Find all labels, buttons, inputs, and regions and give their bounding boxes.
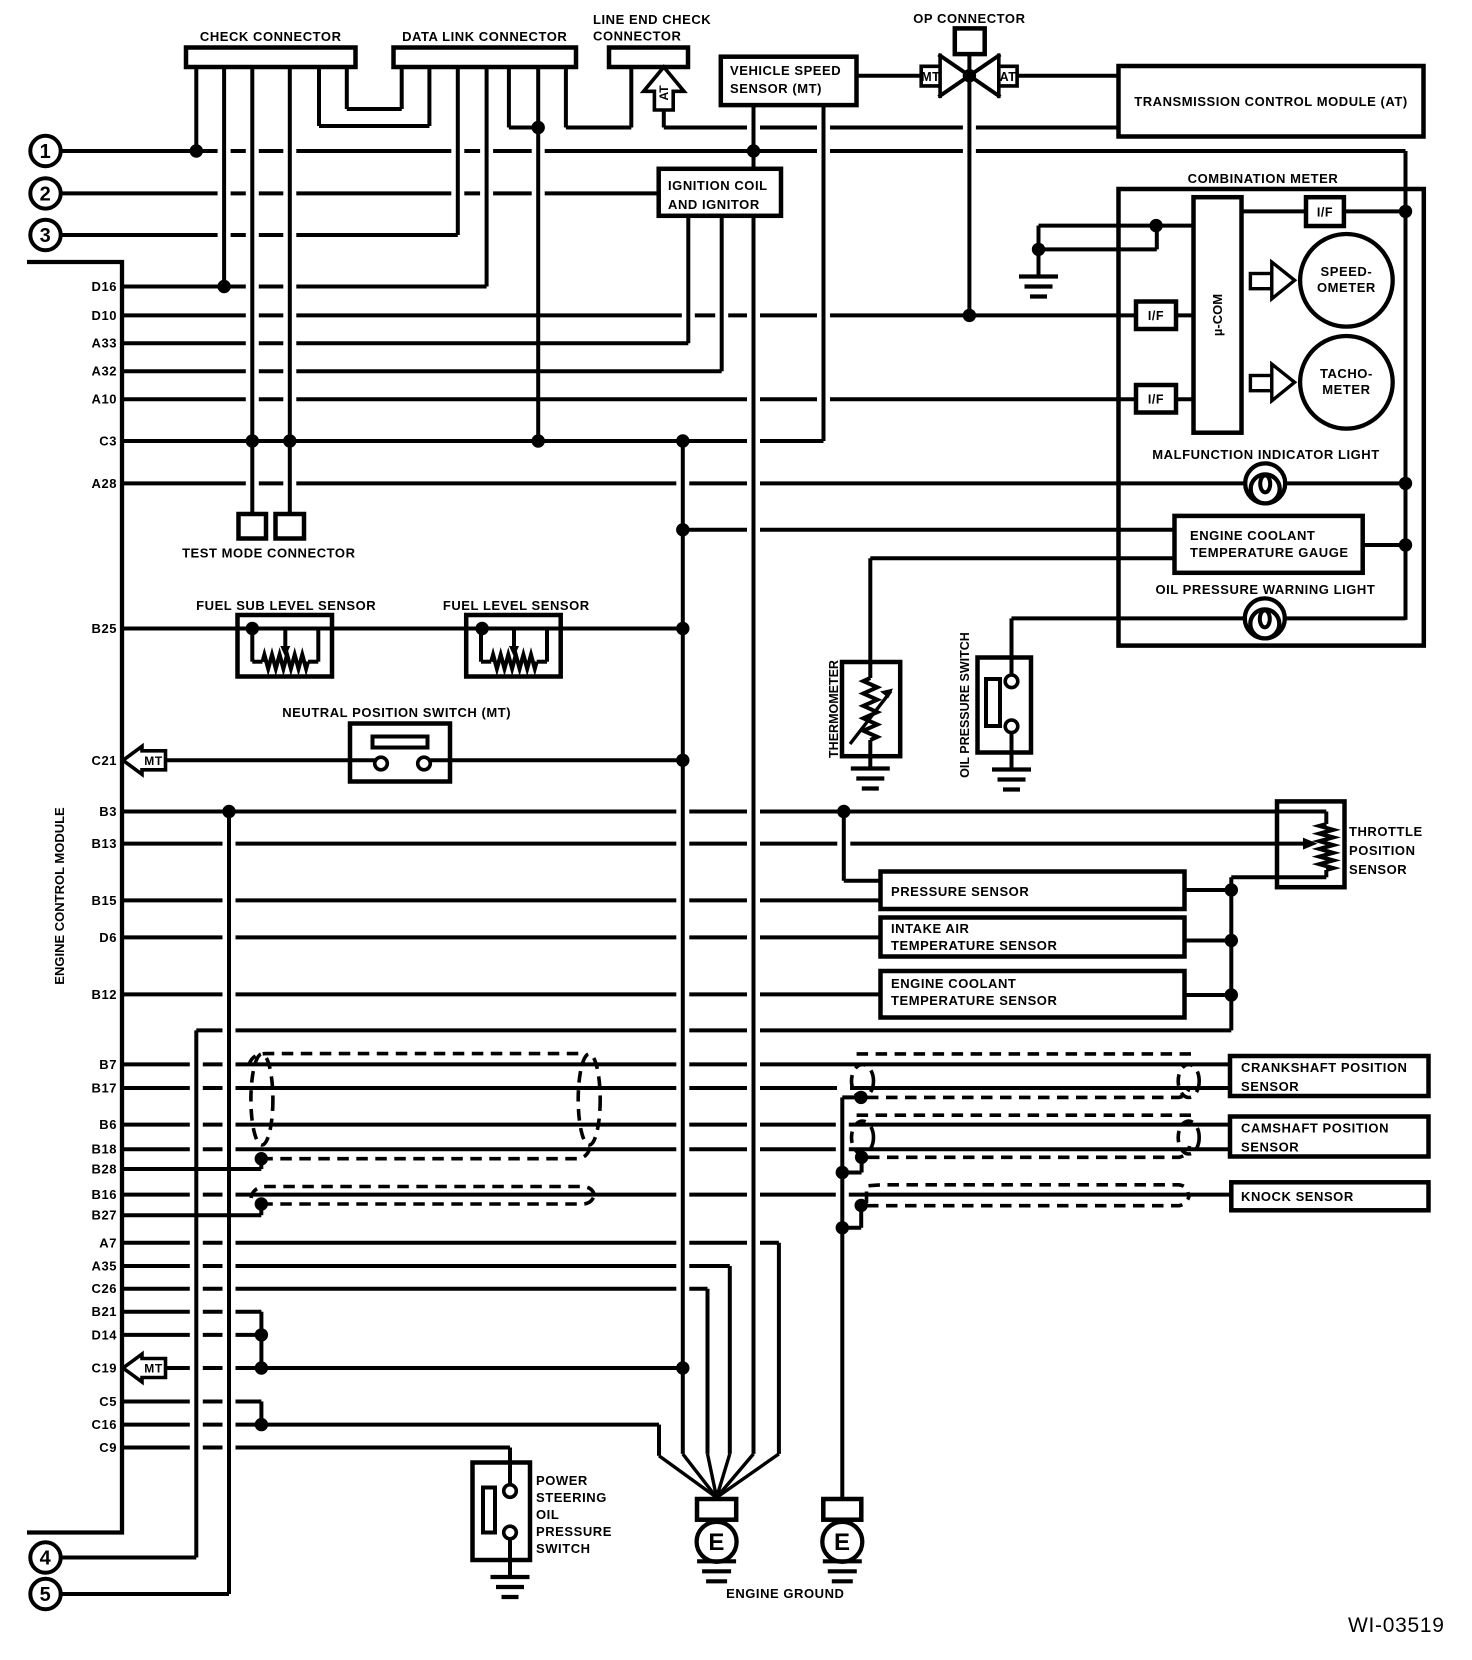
AT arrow (line end check) bbox=[644, 67, 684, 110]
svg-text:SWITCH: SWITCH bbox=[536, 1541, 591, 1556]
svg-text:ENGINE COOLANT: ENGINE COOLANT bbox=[891, 976, 1016, 991]
crank cable shield right bbox=[852, 1054, 1200, 1098]
line end check connector bbox=[593, 12, 711, 67]
MT arrow C19 bbox=[123, 1354, 166, 1382]
svg-text:WI-03519: WI-03519 bbox=[1348, 1614, 1445, 1637]
wire funnel C16 bbox=[659, 1456, 717, 1498]
engine control module label bbox=[52, 807, 67, 985]
wire B21 bbox=[122, 1312, 261, 1368]
node 4 circle bbox=[30, 1542, 60, 1572]
svg-text:B13: B13 bbox=[92, 836, 118, 851]
wire thermometer to gauge bbox=[870, 556, 1174, 560]
OP connector box bbox=[913, 11, 1025, 54]
svg-text:B28: B28 bbox=[92, 1162, 118, 1177]
wire coil drop A32 bbox=[720, 216, 724, 371]
svg-text:C21: C21 bbox=[92, 753, 118, 768]
wire check drop 2 bbox=[222, 67, 226, 287]
tachometer bbox=[1300, 336, 1393, 429]
svg-text:A28: A28 bbox=[92, 476, 118, 491]
wire check-datalink U inner bbox=[347, 67, 402, 109]
svg-text:D6: D6 bbox=[99, 930, 117, 945]
oil pressure switch label bbox=[958, 632, 972, 778]
svg-text:TEMPERATURE SENSOR: TEMPERATURE SENSOR bbox=[891, 938, 1057, 953]
svg-text:TACHO-: TACHO- bbox=[1320, 366, 1373, 381]
wire check drop 3 to test mode bbox=[250, 67, 254, 514]
wire B27 bbox=[122, 1204, 261, 1215]
crankshaft position sensor box bbox=[1230, 1056, 1429, 1096]
svg-text:5: 5 bbox=[40, 1584, 52, 1606]
svg-text:C3: C3 bbox=[99, 434, 117, 449]
wire C16 bbox=[122, 1425, 659, 1456]
malfunction indicator light bbox=[1245, 463, 1285, 503]
wire net2 bbox=[61, 191, 659, 195]
wire datalink drop to C3 bbox=[536, 67, 540, 441]
svg-text:NEUTRAL POSITION SWITCH (MT): NEUTRAL POSITION SWITCH (MT) bbox=[282, 705, 511, 720]
wire B12 bbox=[122, 992, 881, 996]
wire B7 bbox=[122, 1062, 1230, 1066]
wire net1 vertical feed bbox=[1404, 151, 1408, 620]
svg-text:B15: B15 bbox=[92, 893, 118, 908]
svg-text:OMETER: OMETER bbox=[1317, 280, 1376, 295]
svg-text:D16: D16 bbox=[92, 279, 118, 294]
wire B3 bbox=[122, 810, 1326, 814]
svg-text:E: E bbox=[708, 1529, 725, 1556]
svg-text:AT: AT bbox=[657, 85, 671, 101]
ignition coil and ignitor box bbox=[659, 169, 781, 216]
wire A33 bbox=[122, 341, 688, 345]
u-com box bbox=[1194, 197, 1242, 433]
wire C19 bbox=[166, 1366, 683, 1370]
wire AT-arrow to TCM bbox=[664, 110, 1119, 128]
node 5 circle bbox=[30, 1579, 60, 1609]
svg-text:COMBINATION METER: COMBINATION METER bbox=[1188, 171, 1339, 186]
TPS resistor bbox=[1319, 812, 1333, 878]
IF box top bbox=[1306, 197, 1344, 226]
wire node4 bbox=[61, 1556, 197, 1560]
wire VSS right drop (C3) bbox=[822, 105, 826, 441]
tachometer arrow bbox=[1250, 364, 1294, 401]
svg-text:CRANKSHAFT POSITION: CRANKSHAFT POSITION bbox=[1241, 1060, 1407, 1075]
svg-text:CONNECTOR: CONNECTOR bbox=[593, 29, 682, 44]
svg-text:B27: B27 bbox=[92, 1208, 118, 1223]
svg-text:SENSOR: SENSOR bbox=[1349, 862, 1407, 877]
AT label bbox=[1000, 70, 1017, 84]
wire ucom to IF top bbox=[1242, 209, 1307, 213]
svg-text:I/F: I/F bbox=[1148, 309, 1164, 323]
wire datalink drop to node3 bbox=[456, 67, 460, 235]
svg-text:VEHICLE SPEED: VEHICLE SPEED bbox=[730, 63, 841, 78]
svg-text:A10: A10 bbox=[92, 392, 118, 407]
wire C26 bbox=[122, 1289, 708, 1454]
svg-text:CAMSHAFT POSITION: CAMSHAFT POSITION bbox=[1241, 1121, 1389, 1136]
thermometer label bbox=[827, 660, 841, 758]
wire TPS bottom bbox=[1231, 877, 1326, 1030]
svg-text:AT: AT bbox=[1000, 70, 1017, 84]
vehicle speed sensor box bbox=[721, 57, 857, 105]
svg-text:POWER: POWER bbox=[536, 1473, 588, 1488]
svg-text:SENSOR (MT): SENSOR (MT) bbox=[730, 81, 822, 96]
svg-text:A7: A7 bbox=[99, 1235, 117, 1250]
IF box A10 bbox=[1136, 385, 1176, 413]
malfunction indicator light label bbox=[1152, 447, 1379, 462]
svg-text:I/F: I/F bbox=[1148, 393, 1164, 407]
wire oil pressure switch to warning light bbox=[1012, 616, 1406, 620]
wire C3 bbox=[122, 439, 824, 443]
wire coil drop A33 bbox=[686, 216, 690, 343]
node 2 circle bbox=[30, 178, 60, 208]
speedometer arrow bbox=[1250, 262, 1294, 299]
svg-text:THROTTLE: THROTTLE bbox=[1349, 824, 1423, 839]
wire AT to TCM bbox=[1017, 74, 1118, 78]
wire net1 bbox=[61, 149, 1406, 153]
MT label bbox=[921, 70, 940, 84]
svg-text:STEERING: STEERING bbox=[536, 1490, 607, 1505]
wire OP connector stem bbox=[967, 54, 971, 315]
svg-text:B21: B21 bbox=[92, 1304, 118, 1319]
wire check drop 1 bbox=[194, 67, 198, 151]
wire B6 bbox=[122, 1123, 1230, 1127]
thermometer bbox=[842, 558, 900, 788]
wire check drop 4 to test mode bbox=[288, 67, 292, 514]
wire B3 to pressure sensor bbox=[844, 812, 881, 881]
svg-text:OIL PRESSURE WARNING LIGHT: OIL PRESSURE WARNING LIGHT bbox=[1155, 582, 1375, 597]
engine ground label bbox=[726, 1586, 844, 1601]
svg-text:I/F: I/F bbox=[1317, 206, 1333, 220]
cam cable shield right bbox=[852, 1115, 1200, 1157]
svg-text:SPEED-: SPEED- bbox=[1321, 264, 1373, 279]
wire datalink to line-end-check bbox=[566, 67, 631, 128]
svg-text:ENGINE CONTROL MODULE: ENGINE CONTROL MODULE bbox=[52, 807, 67, 985]
wire datalink jumper bbox=[509, 67, 538, 128]
wire C5 bbox=[122, 1402, 261, 1425]
svg-text:CHECK CONNECTOR: CHECK CONNECTOR bbox=[200, 29, 342, 44]
svg-text:METER: METER bbox=[1322, 382, 1370, 397]
svg-text:E: E bbox=[834, 1529, 851, 1556]
wire intake sensor out bbox=[1185, 939, 1232, 943]
power steering oil pressure switch bbox=[473, 1463, 531, 1598]
wire VSS left drop bbox=[752, 105, 756, 169]
svg-text:4: 4 bbox=[40, 1548, 52, 1570]
svg-text:ENGINE COOLANT: ENGINE COOLANT bbox=[1190, 528, 1315, 543]
svg-text:MT: MT bbox=[144, 754, 163, 768]
wire D10 bbox=[122, 313, 1194, 317]
wire net3 bbox=[61, 233, 458, 237]
svg-text:B7: B7 bbox=[99, 1057, 117, 1072]
wire bus 683 bbox=[681, 441, 685, 1454]
engine coolant temperature sensor box bbox=[881, 971, 1185, 1018]
knock sensor box bbox=[1231, 1182, 1428, 1210]
wire coil drop ground bbox=[752, 216, 756, 1454]
wire IF top to feed bbox=[1344, 209, 1406, 213]
svg-text:A35: A35 bbox=[92, 1259, 118, 1274]
svg-text:A33: A33 bbox=[92, 336, 118, 351]
camshaft position sensor box bbox=[1230, 1117, 1429, 1157]
throttle position sensor box bbox=[1277, 801, 1345, 887]
oil pressure switch bbox=[978, 618, 1032, 789]
svg-text:ENGINE GROUND: ENGINE GROUND bbox=[726, 1586, 844, 1601]
node 3 circle bbox=[30, 220, 60, 250]
knock cable shield left bbox=[251, 1187, 595, 1205]
engine ground left terminal bbox=[697, 1499, 736, 1523]
wire A35 bbox=[122, 1266, 730, 1454]
node 1 circle bbox=[30, 136, 60, 166]
svg-text:KNOCK SENSOR: KNOCK SENSOR bbox=[1241, 1189, 1354, 1204]
svg-text:OP CONNECTOR: OP CONNECTOR bbox=[913, 11, 1025, 26]
test mode connector boxes bbox=[182, 514, 356, 561]
engine ground right terminal bbox=[823, 1499, 861, 1523]
diagram id WI-03519 bbox=[1348, 1614, 1445, 1637]
transmission control module box bbox=[1119, 66, 1424, 137]
svg-text:SENSOR: SENSOR bbox=[1241, 1140, 1299, 1155]
wire D6 bbox=[122, 935, 881, 939]
wire C9 bbox=[122, 1448, 510, 1463]
wire funnel diagonals bbox=[683, 1454, 779, 1498]
svg-text:FUEL SUB LEVEL SENSOR: FUEL SUB LEVEL SENSOR bbox=[196, 598, 376, 613]
svg-text:INTAKE AIR: INTAKE AIR bbox=[891, 921, 970, 936]
svg-text:A32: A32 bbox=[92, 364, 118, 379]
speedometer bbox=[1300, 234, 1393, 327]
svg-text:MT: MT bbox=[144, 1362, 163, 1376]
svg-text:IGNITION COIL: IGNITION COIL bbox=[668, 178, 768, 193]
wire D16 bbox=[122, 285, 487, 289]
check connector bbox=[186, 29, 356, 67]
OP X cross bbox=[939, 55, 1001, 97]
wire B13 bbox=[122, 842, 1303, 846]
svg-text:THERMOMETER: THERMOMETER bbox=[827, 660, 841, 758]
engine ground left circle bbox=[697, 1522, 737, 1582]
wire shield drain bus bbox=[842, 1097, 861, 1499]
wire A32 bbox=[122, 369, 722, 373]
svg-text:D10: D10 bbox=[92, 308, 118, 323]
svg-text:PRESSURE: PRESSURE bbox=[536, 1524, 612, 1539]
wire bus683 to gauge bbox=[683, 528, 1175, 532]
svg-text:TEST MODE CONNECTOR: TEST MODE CONNECTOR bbox=[182, 546, 356, 561]
svg-text:B25: B25 bbox=[92, 621, 118, 636]
svg-text:µ-COM: µ-COM bbox=[1210, 294, 1225, 336]
svg-text:LINE END CHECK: LINE END CHECK bbox=[593, 12, 711, 27]
svg-text:TEMPERATURE GAUGE: TEMPERATURE GAUGE bbox=[1190, 545, 1349, 560]
svg-text:TEMPERATURE SENSOR: TEMPERATURE SENSOR bbox=[891, 993, 1057, 1008]
wire node5 bbox=[61, 812, 229, 1595]
wire sensor return bbox=[196, 1030, 1231, 1557]
wire B17 bbox=[122, 1086, 1230, 1090]
oil pressure warning light bbox=[1245, 598, 1285, 638]
wire B25 bbox=[122, 627, 683, 631]
svg-text:C19: C19 bbox=[92, 1361, 118, 1376]
AT arrow (OP) bbox=[999, 54, 1017, 99]
wire C21 bbox=[166, 758, 683, 762]
power steering switch label bbox=[536, 1473, 612, 1556]
svg-text:POSITION: POSITION bbox=[1349, 843, 1416, 858]
svg-text:B16: B16 bbox=[92, 1187, 118, 1202]
svg-text:C5: C5 bbox=[99, 1394, 117, 1409]
intake air temperature sensor box bbox=[881, 918, 1185, 957]
svg-text:MT: MT bbox=[921, 70, 940, 84]
TPS wiper arrow bbox=[1303, 838, 1318, 850]
wire coolant sensor out bbox=[1185, 993, 1232, 997]
wire B28 bbox=[122, 1159, 261, 1169]
wire VSS to MT arrow bbox=[857, 74, 922, 78]
svg-text:1: 1 bbox=[40, 141, 52, 163]
engine control module U1 outline bbox=[27, 262, 122, 1533]
crank/cam cable shield left bbox=[249, 1054, 600, 1159]
wire check-datalink U outer bbox=[319, 67, 429, 126]
svg-text:2: 2 bbox=[40, 183, 52, 205]
svg-text:MALFUNCTION INDICATOR LIGHT: MALFUNCTION INDICATOR LIGHT bbox=[1152, 447, 1379, 462]
svg-text:B12: B12 bbox=[92, 987, 118, 1002]
svg-text:DATA LINK CONNECTOR: DATA LINK CONNECTOR bbox=[402, 29, 567, 44]
svg-text:B3: B3 bbox=[99, 804, 117, 819]
wire A7 bbox=[122, 1243, 779, 1454]
wire gauge output bbox=[1363, 543, 1406, 547]
fuel sub level sensor bbox=[196, 598, 376, 677]
svg-text:FUEL LEVEL SENSOR: FUEL LEVEL SENSOR bbox=[443, 598, 590, 613]
pressure sensor box bbox=[881, 872, 1185, 910]
combination meter box bbox=[1119, 171, 1424, 646]
svg-text:PRESSURE SENSOR: PRESSURE SENSOR bbox=[891, 884, 1029, 899]
svg-text:B6: B6 bbox=[99, 1117, 117, 1132]
wire B18 bbox=[122, 1147, 1230, 1151]
wire A28 bbox=[122, 481, 1406, 485]
neutral position switch bbox=[282, 705, 511, 782]
engine coolant temperature gauge box bbox=[1175, 516, 1363, 573]
svg-text:D14: D14 bbox=[92, 1327, 118, 1342]
svg-text:AND IGNITOR: AND IGNITOR bbox=[668, 197, 760, 212]
wire pressure sensor out bbox=[1185, 888, 1232, 892]
svg-text:3: 3 bbox=[40, 225, 52, 247]
throttle position sensor label bbox=[1349, 824, 1423, 877]
IF box D10 bbox=[1136, 302, 1176, 330]
wire D14 bbox=[122, 1333, 261, 1337]
fuel level sensor bbox=[443, 598, 590, 677]
wire A10 bbox=[122, 397, 1194, 401]
svg-text:B18: B18 bbox=[92, 1142, 118, 1157]
data link connector bbox=[394, 29, 577, 67]
svg-text:C16: C16 bbox=[92, 1417, 118, 1432]
oil pressure warning light label bbox=[1155, 582, 1375, 597]
svg-text:OIL: OIL bbox=[536, 1507, 559, 1522]
wire B16 bbox=[122, 1193, 1231, 1197]
engine ground right circle bbox=[822, 1522, 862, 1582]
svg-text:B17: B17 bbox=[92, 1081, 118, 1096]
knock cable shield right bbox=[867, 1185, 1190, 1206]
ucom ground loop bbox=[1019, 226, 1194, 297]
svg-text:C26: C26 bbox=[92, 1281, 118, 1296]
MT arrow C21 bbox=[123, 746, 166, 774]
ECM pin labels bbox=[92, 279, 118, 1455]
svg-text:OIL PRESSURE SWITCH: OIL PRESSURE SWITCH bbox=[958, 632, 972, 778]
MT arrow (OP) bbox=[921, 54, 940, 99]
wire datalink drop to D16 bbox=[485, 67, 489, 287]
wire B15 bbox=[122, 898, 881, 902]
svg-text:SENSOR: SENSOR bbox=[1241, 1079, 1299, 1094]
svg-text:TRANSMISSION CONTROL MODULE (A: TRANSMISSION CONTROL MODULE (AT) bbox=[1134, 94, 1408, 109]
svg-text:C9: C9 bbox=[99, 1440, 117, 1455]
